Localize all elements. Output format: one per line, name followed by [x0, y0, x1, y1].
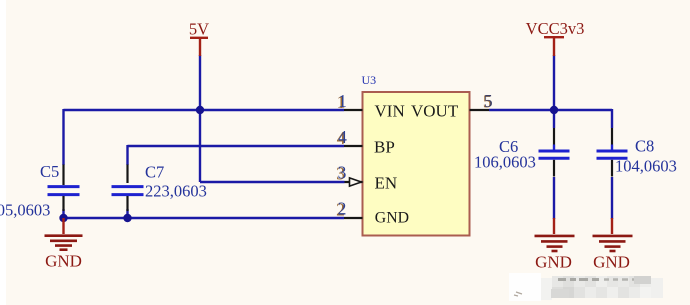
svg-text:4: 4 [338, 127, 347, 147]
pin 5 stub (VOUT) [470, 109, 490, 111]
svg-text:VCC3v3: VCC3v3 [526, 19, 585, 38]
capacitor C8 [597, 128, 628, 177]
power flag 5V [189, 20, 209, 57]
svg-text:BP: BP [374, 137, 395, 156]
wire: top rail from C5 corner to pin1 (VIN) [64, 109, 345, 111]
svg-text:GND: GND [45, 252, 82, 271]
capacitor C6 [539, 128, 570, 177]
wire: C6 lower wire to GND [553, 177, 555, 219]
wire: VCC3v3 vertical into junction [553, 55, 555, 128]
svg-text:5V: 5V [189, 20, 209, 39]
svg-text:VIN: VIN [375, 102, 405, 121]
svg-text:105,0603: 105,0603 [0, 201, 50, 220]
svg-text:C5: C5 [40, 162, 59, 181]
pin 3 number [336, 163, 347, 184]
op-amp/regulator U3 body [363, 92, 470, 236]
ground symbol under C6 [535, 218, 575, 251]
svg-text:GND: GND [535, 252, 572, 271]
wire: C7 vertical drop from BP row [126, 145, 128, 165]
svg-text:C7: C7 [145, 163, 164, 182]
wire: C5 vertical drop from top rail [62, 109, 64, 165]
svg-text:1: 1 [338, 91, 347, 111]
wire: C6 upper lead [553, 145, 555, 151]
svg-text:GND: GND [593, 252, 630, 271]
junction node at 5V / top rail [196, 106, 204, 114]
pin 4 number [337, 127, 348, 148]
capacitor C5 [48, 165, 80, 212]
pin 1 stub (VIN) [344, 109, 363, 111]
pin 5 number [483, 91, 493, 112]
svg-text:223,0603: 223,0603 [145, 182, 207, 201]
wire: VOUT pin5 to VCC junction [489, 109, 554, 111]
power flag VCC3v3 [526, 19, 585, 56]
svg-text:U3: U3 [362, 73, 377, 87]
ground symbol under C8 [593, 218, 633, 251]
wire: C5 lower lead to bottom rail [62, 209, 64, 218]
wire: C8 vertical drop [611, 109, 613, 128]
wire: VCC junction right to C8 corner [554, 109, 612, 111]
junction node at VCC3v3 / VOUT rail [550, 106, 558, 114]
svg-text:3: 3 [338, 163, 347, 183]
capacitor C7 [112, 165, 144, 212]
pin 3 stub (EN) [345, 181, 363, 183]
svg-text:104,0603: 104,0603 [615, 157, 677, 176]
svg-text:EN: EN [375, 174, 398, 193]
svg-text:106,0603: 106,0603 [474, 153, 536, 172]
wire: bottom GND rail from C5 to pin2 [64, 217, 345, 219]
watermark mosaic bottom right [509, 273, 663, 301]
svg-text:VOUT: VOUT [411, 102, 459, 121]
pin 4 stub (BP) [344, 145, 363, 147]
svg-text:C8: C8 [635, 137, 654, 156]
junction node C7 / bottom rail [123, 214, 131, 222]
wire: BP row horizontal from C7 to pin4 [128, 145, 345, 147]
wire: C7 lower lead to bottom rail [126, 209, 128, 218]
svg-text:5: 5 [484, 91, 493, 111]
ground symbol under C5 [45, 218, 83, 250]
pin 3 input arrow [350, 178, 362, 186]
svg-text:2: 2 [338, 199, 347, 219]
wire: 5V vertical down through junction to EN row [199, 55, 201, 182]
svg-text:GND: GND [375, 210, 409, 227]
wire: C8 upper lead [611, 145, 613, 151]
pin 1 number [337, 91, 347, 112]
pin 2 number [336, 199, 346, 220]
junction node C5 / bottom rail [59, 214, 67, 222]
pin 2 stub (GND) [344, 217, 363, 219]
wire: EN row horizontal to pin3 [200, 181, 345, 183]
wire: C8 lower wire to GND [611, 177, 613, 219]
